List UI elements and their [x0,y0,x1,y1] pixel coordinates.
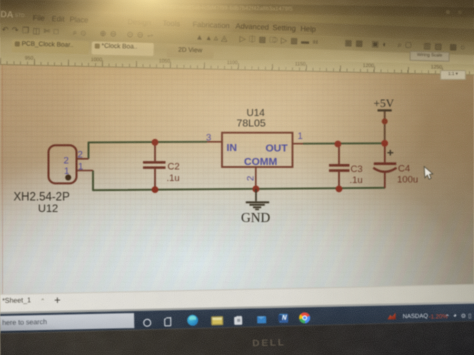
U12 pin 1 stub [77,170,94,172]
svg-text:U12: U12 [38,203,58,215]
ruler [0,54,474,76]
node: COMM / ground junction [252,186,259,193]
svg-text:3: 3 [206,133,211,144]
U12 pin number 1 label [78,162,83,173]
C4 reference label [398,164,410,175]
U14 pin 3 stub (IN) [207,141,222,143]
C2 value label .1u [167,173,180,184]
U14 pin number 2 (rotated) [246,176,257,181]
toolbar row of icons [0,24,474,57]
mail envelope [257,316,267,323]
ground GND symbol [246,189,269,209]
C3 reference label [351,164,363,175]
U14 pin 2 (COMM) down to ground node [255,167,257,190]
svg-text:OUT: OUT [266,143,289,155]
canvas grid lines (fading toward washed-out bottom) [0,36,474,314]
top chrome backdrop [0,0,474,80]
nasdaq widget [387,312,396,319]
node: C3 bottom junction [336,186,343,193]
capacitor C3 [329,144,350,189]
wire: U14 OUT to +5V/C4 node [303,142,385,144]
node: C2 top junction [152,139,159,146]
U12 pin 2 stub [77,158,89,160]
svg-text:IN: IN [227,142,238,154]
svg-text:1: 1 [298,131,303,142]
C4 polarity plus sign [387,150,393,156]
svg-text:XH2.54-2P: XH2.54-2P [14,192,71,204]
sheet tab bar [0,283,474,312]
svg-text:1: 1 [78,162,83,173]
monitor bezel with DELL logo [0,320,474,355]
moire iridescent streaks on lower canvas [0,195,474,305]
search box [0,312,134,330]
svg-text:.1u: .1u [167,173,180,184]
node: OUT net / C4 top junction [381,140,388,147]
capacitor C4 polarized [373,143,396,188]
document tabs row [0,36,474,64]
U14 pin number 1 [298,131,303,142]
U12 pin 1 polarity dot [65,175,71,181]
U14 value label 78L05 [237,118,266,130]
file explorer folder [211,316,223,325]
canvas scale widget at right [440,70,466,80]
power +5V net flag [374,98,395,110]
U14 pin name COMM [244,156,277,168]
wire: U12 pin1 riser + bottom ground net [93,171,385,191]
svg-text:2: 2 [246,176,257,181]
svg-text:C4: C4 [398,164,410,175]
GND net label [241,210,270,225]
store bag icon [234,317,242,325]
svg-text:C3: C3 [351,164,363,175]
U12 inner pin number 2 [64,156,69,167]
wire: U12 pin2 riser + top net to U14 IN [89,142,208,159]
word icon [279,313,288,322]
lighting: faint veil over mid-canvas [0,60,474,240]
connector U12 XH2.54-2P body [49,145,77,183]
U12 pin number 2 label [78,150,83,161]
lighting: soft halo on canvas under schematic [0,60,474,240]
U12 value label XH2.54-2P [14,192,71,204]
C4 value label 100u [397,175,418,186]
cortana circle [143,319,151,327]
U14 pin 1 stub (OUT) [293,143,304,145]
svg-text:GND: GND [241,210,270,225]
U14 reference label [247,108,266,119]
svg-text:2: 2 [78,150,83,161]
svg-text:.1u: .1u [350,175,363,186]
capacitor C2 [143,142,166,189]
task view [164,318,172,326]
C2 reference label [168,162,180,173]
app bottom edge line [0,301,474,314]
chrome icon [299,312,310,323]
wiring scale tooltip box [409,51,449,62]
mouse cursor [424,167,433,180]
schematic canvas background with grid [0,36,474,314]
node: C3 top junction [335,141,342,148]
edge icon [187,314,198,325]
Windows taskbar [0,302,474,333]
svg-text:COMM: COMM [244,156,277,168]
canvas sheet left border line [2,62,3,300]
svg-text:2: 2 [64,156,69,167]
title row (browser/app title with hash text) [0,0,474,18]
svg-text:1: 1 [64,166,69,177]
U12 reference label [38,203,58,215]
U14 pin name IN [227,142,238,154]
U14 pin number 3 [206,133,211,144]
menu row [0,10,474,43]
node: +5V flag anchor dot [382,118,388,124]
op-amp style box: regulator U14 78L05 [222,133,293,167]
svg-text:+5V: +5V [374,98,395,110]
lighting: broad warm tint over top chrome [0,0,474,95]
C3 value label .1u [350,175,363,186]
U14 pin name OUT [266,143,289,155]
svg-text:78L05: 78L05 [237,118,266,130]
wire: +5V flag stem to top node [384,111,386,143]
svg-text:C2: C2 [168,162,180,173]
lighting: bright glare top-center [0,0,474,160]
U12 inner pin number 1 [64,166,69,177]
svg-text:100u: 100u [397,175,418,186]
node: C2 bottom junction [152,186,159,193]
